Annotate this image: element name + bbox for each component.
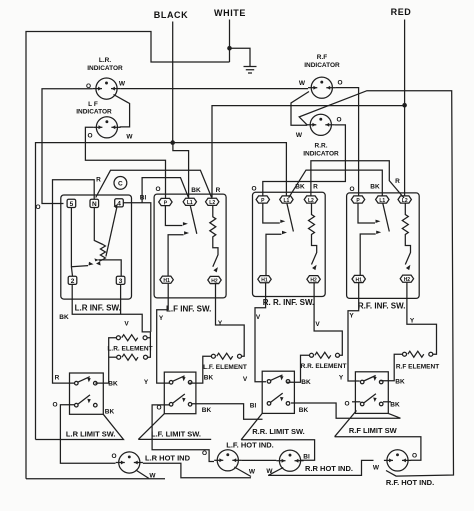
wire red bus to L2 of LF switch — [212, 106, 405, 198]
svg-text:W: W — [296, 132, 303, 139]
terminal L1 — [280, 196, 293, 203]
internal L2 resistor and bimetal — [402, 203, 410, 264]
switch box R.F. INF. SW. — [347, 193, 420, 299]
box1 internal: N to resistor — [94, 208, 103, 245]
svg-text:O: O — [412, 453, 417, 460]
svg-text:R.F LIMIT SW: R.F LIMIT SW — [349, 426, 398, 435]
resistor L.R ELEMENT — [116, 336, 120, 340]
bottom contact — [267, 402, 271, 406]
svg-text:H2: H2 — [310, 278, 317, 284]
bottom contact — [75, 403, 79, 407]
box1 internal: bar to 3 — [98, 260, 121, 276]
wire element left bracket — [95, 338, 116, 383]
svg-text:BK: BK — [204, 375, 214, 382]
internal H1 arm — [168, 235, 184, 276]
bottom contact — [360, 402, 364, 406]
resistor R.R ELEMENT — [310, 353, 314, 357]
svg-text:Y: Y — [339, 375, 344, 382]
top contact — [75, 381, 79, 385]
wire flag L.F limit — [138, 414, 211, 440]
wire W bus L.R to R.F indicator — [120, 88, 308, 90]
svg-text:L.R HOT IND: L.R HOT IND — [145, 454, 191, 463]
junction dot white/ground — [227, 46, 232, 51]
svg-text:BK: BK — [390, 402, 400, 409]
svg-text:R: R — [395, 178, 400, 185]
wire BK jog to L1 of LF switch — [173, 143, 189, 198]
svg-text:R: R — [55, 375, 60, 382]
svg-text:O: O — [52, 402, 57, 409]
svg-text:R. R. INF. SW.: R. R. INF. SW. — [263, 298, 315, 307]
lamp L.R HOT IND — [119, 452, 140, 473]
svg-text:Y: Y — [218, 320, 223, 327]
junction dot red — [402, 103, 407, 108]
lamp R.R HOT IND — [279, 450, 300, 471]
switch box L.R INF. SW. — [61, 195, 132, 299]
wire Y from H1 of box2 to L.F limit — [157, 284, 169, 383]
terminal H2 — [208, 276, 221, 283]
wire Bl from terminal 4 — [123, 203, 150, 332]
lamp L.R indicator — [96, 78, 117, 99]
wire O from R.R indicator to P of RR switch — [263, 125, 346, 196]
wire V from H2 of box3 to R.R element — [314, 283, 342, 355]
wire L.F element left to limit — [189, 356, 211, 383]
svg-text:O: O — [155, 186, 160, 193]
wire V from H1 of box3 to R.R limit — [255, 283, 266, 382]
svg-text:W: W — [119, 81, 126, 88]
wire L.F hot right to R.R hot left — [241, 459, 276, 461]
resistor L.F ELEMENT — [211, 354, 215, 358]
wire Y from H1 of box4 to R.F limit — [348, 283, 360, 381]
junction dot black/bus — [170, 140, 175, 145]
wire R.R element left to limit — [287, 355, 310, 382]
lamp L.F indicator — [96, 117, 117, 138]
svg-text:Y: Y — [159, 315, 164, 322]
lamp R.F indicator — [311, 77, 332, 98]
wire O flag R.F limit to hot lamp — [335, 411, 421, 461]
switch box R. R. INF. SW. — [253, 192, 326, 296]
svg-text:W: W — [126, 134, 133, 141]
wire to ground — [230, 48, 251, 66]
svg-text:V: V — [256, 314, 261, 321]
wire element right bracket — [147, 338, 150, 358]
switch box R.R LIMIT SW — [262, 371, 294, 413]
switch box L.F LIMIT SW — [164, 372, 196, 414]
svg-text:BK: BK — [370, 184, 380, 191]
terminal P — [256, 196, 269, 203]
svg-text:L.R LIMIT SW.: L.R LIMIT SW. — [66, 430, 116, 439]
terminal P — [351, 196, 364, 203]
switch box L.R LIMIT SW — [70, 373, 104, 414]
internal L1 blade — [383, 203, 390, 231]
svg-text:INDICATOR: INDICATOR — [303, 151, 339, 158]
terminal L1 — [183, 198, 196, 205]
wire O from L.R indicator to terminal 5 — [42, 89, 93, 204]
svg-text:L1: L1 — [187, 200, 193, 206]
svg-text:W: W — [373, 465, 380, 472]
svg-text:R.F. HOT IND.: R.F. HOT IND. — [386, 478, 434, 487]
svg-text:O: O — [156, 405, 161, 412]
svg-text:L1: L1 — [379, 198, 385, 204]
svg-text:BK: BK — [395, 379, 405, 386]
svg-text:V: V — [124, 321, 129, 328]
svg-text:BK: BK — [202, 407, 212, 414]
wire Y from H2 of box2 to L.F element — [216, 284, 245, 356]
svg-text:O: O — [349, 186, 354, 193]
svg-text:O: O — [337, 80, 342, 87]
wire RED vertical — [404, 20, 406, 106]
switch box L.F INF. SW. — [154, 194, 226, 298]
svg-text:Y: Y — [410, 318, 415, 325]
svg-text:O: O — [251, 186, 256, 193]
wire W diagonal R.F to R.R indicator — [291, 92, 309, 126]
terminal N — [90, 199, 99, 207]
internal H1 arm — [266, 234, 282, 275]
internal P arm — [165, 206, 182, 226]
wire BK from terminal 2 and V from terminal 3 to L.R element — [72, 285, 150, 332]
wire O from L.F indicator to P of LF switch — [85, 127, 165, 198]
svg-text:L F: L F — [88, 101, 98, 108]
switch box R.F LIMIT SW — [355, 372, 388, 414]
svg-text:R: R — [96, 177, 101, 184]
svg-text:Bl: Bl — [303, 454, 310, 461]
svg-text:R: R — [313, 184, 318, 191]
wire WHITE vertical — [229, 20, 231, 63]
svg-text:L.F. LIMIT SW.: L.F. LIMIT SW. — [151, 430, 201, 439]
wire Y from H2 of box4 to R.F element — [407, 283, 437, 355]
svg-text:V: V — [315, 321, 320, 328]
svg-text:R.F ELEMENT: R.F ELEMENT — [396, 363, 439, 370]
wire O from R.F indicator down to P of RF switch — [336, 88, 359, 196]
box1 internal: 5 to 2 switch — [71, 208, 72, 277]
svg-text:H2: H2 — [211, 278, 218, 284]
svg-text:R.R.: R.R. — [315, 143, 328, 150]
svg-text:R.R HOT IND.: R.R HOT IND. — [305, 464, 353, 473]
wire BK flag L.R limit — [36, 414, 124, 439]
wire W diagonal from R.R hot lamp to bus — [268, 460, 373, 475]
svg-text:C: C — [118, 181, 123, 188]
svg-text:BK: BK — [108, 381, 118, 388]
terminal 5 — [67, 199, 76, 207]
top contact — [267, 380, 271, 384]
lamp L.F HOT IND — [217, 450, 238, 471]
wire W diagonal from L.F hot lamp — [234, 467, 251, 477]
wire O L.R limit to hot lamp — [60, 405, 115, 464]
resistor R.F ELEMENT — [403, 352, 407, 356]
svg-text:W: W — [249, 469, 256, 476]
internal L2 resistor and bimetal — [309, 203, 317, 264]
wire stub R.F limit bottom left — [352, 401, 360, 403]
svg-text:O: O — [111, 453, 116, 460]
svg-text:BK: BK — [299, 407, 309, 414]
lamp R.F HOT IND — [387, 450, 408, 471]
svg-text:O: O — [35, 204, 40, 211]
svg-text:Y: Y — [349, 313, 354, 320]
wire R.F element left to limit — [380, 354, 402, 381]
svg-text:BLACK: BLACK — [154, 10, 189, 20]
terminal 2 — [68, 276, 77, 284]
svg-text:Bl: Bl — [250, 403, 257, 410]
svg-text:BK: BK — [301, 379, 311, 386]
svg-text:O: O — [202, 450, 207, 457]
bottom contact — [169, 403, 173, 407]
terminal H1 — [352, 275, 365, 282]
svg-text:L.F INF. SW.: L.F INF. SW. — [166, 305, 211, 314]
terminal L2 — [206, 198, 219, 205]
wire R loop to terminal N and L.R limit — [53, 180, 95, 383]
wire stub R.F limit bottom right — [383, 401, 391, 403]
wire BK bus from black line — [36, 143, 287, 440]
terminal L1 — [376, 196, 389, 203]
wire O L.F limit to hot lamp — [152, 405, 214, 462]
wire BK bus RR-L1 to RF-L1 — [289, 170, 383, 198]
wire BLACK vertical — [172, 22, 174, 143]
terminal L2 — [398, 196, 411, 203]
terminal H2 — [307, 276, 320, 283]
svg-text:L2: L2 — [402, 198, 408, 204]
terminal 3 — [116, 276, 125, 284]
svg-text:BK: BK — [59, 314, 69, 321]
wire W diagonal from L.R hot lamp — [136, 470, 149, 478]
internal H1 arm — [360, 234, 376, 275]
svg-text:INDICATOR: INDICATOR — [76, 109, 112, 116]
svg-text:3: 3 — [119, 278, 123, 285]
svg-text:L1: L1 — [283, 198, 289, 204]
svg-text:Y: Y — [144, 379, 149, 386]
svg-text:O: O — [336, 117, 341, 124]
svg-text:L2: L2 — [209, 200, 215, 206]
internal P arm — [263, 203, 280, 223]
internal L1 blade — [287, 203, 294, 231]
terminal P — [159, 198, 172, 205]
svg-text:5: 5 — [70, 201, 74, 208]
wire diagonal N to R bus — [96, 170, 212, 197]
internal L1 blade — [190, 206, 197, 234]
top contact — [169, 381, 173, 385]
terminal 4 — [115, 199, 124, 207]
svg-text:2: 2 — [71, 278, 75, 285]
svg-text:WHITE: WHITE — [214, 8, 246, 18]
svg-text:O: O — [344, 401, 349, 408]
svg-text:L.R INF. SW.: L.R INF. SW. — [75, 304, 121, 313]
wire red down to L2 of RF switch — [404, 105, 406, 195]
top contact — [360, 380, 364, 384]
svg-text:L.F. HOT IND.: L.F. HOT IND. — [226, 441, 274, 450]
terminal L2 — [304, 196, 317, 203]
svg-text:L2: L2 — [308, 198, 314, 204]
terminal H1 — [258, 276, 271, 283]
wire Bl flag R.R limit to hot lamp — [241, 413, 315, 460]
wire BK from R.R limit bottom to R.F limit corner — [291, 403, 400, 418]
wire L.R hot right terminal to W bus — [143, 463, 251, 478]
svg-text:H1: H1 — [163, 278, 170, 284]
svg-text:L.R. ELEMENT: L.R. ELEMENT — [107, 345, 152, 352]
svg-text:Bl: Bl — [140, 195, 147, 202]
svg-text:V: V — [243, 376, 248, 383]
svg-text:H1: H1 — [355, 277, 362, 283]
svg-text:W: W — [266, 468, 273, 475]
svg-text:N: N — [92, 201, 97, 208]
top border / white net wire — [26, 32, 230, 479]
wire R bus RR-L2 to RF-L2 — [311, 161, 404, 198]
internal P arm — [358, 203, 375, 223]
svg-text:W: W — [299, 80, 306, 87]
terminal H2 — [400, 275, 413, 282]
svg-text:R: R — [216, 187, 221, 194]
svg-text:BK: BK — [105, 409, 115, 416]
svg-text:RED: RED — [391, 7, 412, 17]
svg-text:INDICATOR: INDICATOR — [304, 62, 340, 69]
svg-text:O: O — [87, 133, 92, 140]
svg-text:H1: H1 — [261, 278, 268, 284]
svg-text:L.R.: L.R. — [99, 57, 111, 64]
terminal H1 — [160, 276, 173, 283]
svg-text:L.F. ELEMENT: L.F. ELEMENT — [203, 364, 247, 371]
svg-text:R.R. LIMIT SW.: R.R. LIMIT SW. — [252, 427, 305, 436]
wire W vertex to right border — [299, 91, 453, 476]
wire L.R lamp to L.F indicator W — [114, 95, 130, 127]
wire BK from L.F limit bottom right — [191, 404, 263, 420]
lamp R.R indicator — [310, 114, 331, 135]
svg-text:H2: H2 — [404, 277, 411, 283]
svg-text:R.F. INF. SW.: R.F. INF. SW. — [358, 302, 406, 311]
ground — [244, 67, 257, 74]
svg-text:INDICATOR: INDICATOR — [87, 65, 123, 72]
svg-text:R.F: R.F — [317, 54, 328, 61]
box1 internal: 4 diagonal — [106, 207, 117, 257]
svg-text:BK: BK — [191, 187, 201, 194]
circle C — [114, 177, 127, 190]
svg-text:R.R. ELEMENT: R.R. ELEMENT — [301, 363, 347, 370]
internal L2 resistor and bimetal — [210, 206, 218, 267]
wire W bus bottom left — [26, 478, 165, 480]
